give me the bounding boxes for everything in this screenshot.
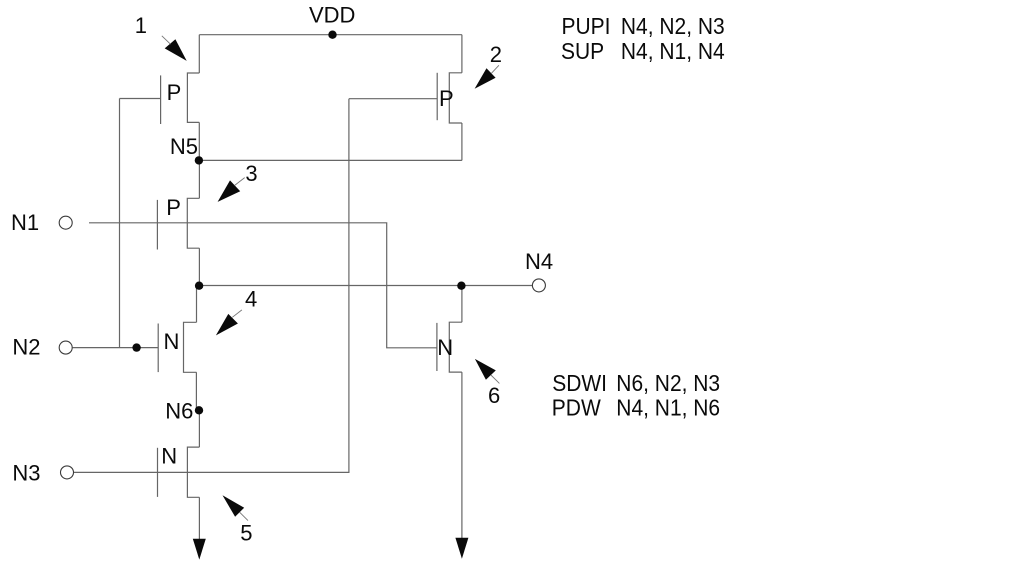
wire Q1 source lead (198, 122, 200, 160)
transistor Q6 gate bar (436, 323, 438, 371)
svg-text:N4: N4 (525, 249, 553, 274)
svg-text:SDWI: SDWI (552, 370, 607, 396)
arrow 3 head (218, 180, 241, 202)
svg-text:N: N (437, 335, 453, 360)
wire Q3 drain lead (198, 160, 200, 198)
wire Q4 drain lead (196, 286, 198, 323)
wire N5 node horizontal (199, 159, 462, 161)
arrow 4 tail (232, 310, 242, 317)
transistor Q6 channel (449, 322, 462, 372)
terminal circle N2 (59, 341, 72, 354)
text SUP line (561, 38, 725, 64)
terminal circle N3 (61, 466, 74, 479)
svg-text:P: P (166, 195, 181, 220)
svg-text:PDW: PDW (552, 395, 601, 421)
svg-text:VDD: VDD (309, 2, 355, 27)
junction dot N2 (132, 343, 140, 351)
svg-text:N4, N2, N3: N4, N2, N3 (621, 13, 725, 39)
svg-text:P: P (167, 80, 182, 105)
ground arrow left (193, 539, 206, 560)
wire Q2 gate lead (349, 98, 437, 100)
arrow 6 head (475, 359, 496, 380)
arrow 3 tail (235, 178, 245, 186)
wire Q2 source lead (461, 123, 463, 160)
transistor Q5 gate bar (157, 448, 159, 497)
text SDWI line (552, 370, 720, 396)
wire N4 output horizontal (199, 285, 532, 287)
transistor Q1 channel (187, 73, 199, 122)
svg-text:P: P (439, 86, 454, 111)
wire N1 input (89, 223, 437, 348)
junction dot N5 (195, 156, 203, 164)
wire Q2 gate to N3 net (74, 99, 349, 473)
transistor Q4 channel (184, 322, 197, 372)
svg-text:PUPI: PUPI (562, 13, 611, 39)
svg-text:2: 2 (490, 42, 502, 67)
junction dot N4 right (457, 282, 465, 290)
svg-text:N6, N2, N3: N6, N2, N3 (616, 370, 720, 396)
arrow 1 tail (162, 36, 171, 44)
svg-text:6: 6 (488, 383, 500, 408)
svg-text:N4, N1, N4: N4, N1, N4 (621, 38, 725, 64)
junction dot N6 (195, 406, 203, 414)
svg-text:N3: N3 (12, 461, 40, 486)
svg-text:5: 5 (240, 520, 252, 545)
text PDW line (552, 395, 720, 421)
junction dot N4 left (195, 282, 203, 290)
arrow 5 head (223, 495, 245, 517)
wire Q4 source lead (195, 372, 197, 410)
wire Q1 gate lead (120, 98, 161, 100)
junction dot VDD (328, 31, 336, 39)
wire Q1 gate to N2 net (119, 99, 121, 348)
transistor Q5 channel (187, 447, 199, 497)
wire Q1 drain lead (198, 35, 200, 73)
arrow 5 tail (240, 512, 248, 520)
transistor Q3 gate bar (156, 200, 158, 250)
ground arrow right (455, 538, 468, 559)
svg-text:N: N (161, 443, 177, 468)
wire Q2 drain lead (461, 35, 463, 73)
arrow 2 head (475, 68, 496, 89)
transistor Q2 channel (449, 73, 462, 123)
wire VDD rail (199, 34, 462, 36)
wire Q5 source lead to ground (198, 497, 200, 539)
arrow 1 head (165, 39, 187, 61)
terminal circle N1 (59, 216, 72, 229)
arrow 4 head (216, 314, 238, 336)
svg-text:N: N (164, 329, 180, 354)
svg-text:N5: N5 (170, 134, 198, 159)
svg-text:N2: N2 (12, 334, 40, 359)
svg-text:1: 1 (135, 13, 147, 38)
svg-text:4: 4 (245, 287, 257, 312)
svg-text:N4, N1, N6: N4, N1, N6 (616, 395, 720, 421)
transistor Q3 channel (187, 198, 199, 248)
svg-text:SUP: SUP (561, 38, 604, 64)
wire N2 input (73, 347, 159, 349)
svg-text:3: 3 (245, 161, 257, 186)
transistor Q4 gate bar (157, 324, 159, 373)
svg-text:N6: N6 (165, 398, 193, 423)
transistor Q2 gate bar (436, 73, 438, 120)
text PUPI line (562, 13, 725, 39)
wire Q3 source lead (198, 248, 200, 285)
arrow 2 tail (492, 65, 499, 73)
wire Q6 source lead to ground (461, 372, 463, 538)
terminal circle N4 (532, 279, 545, 292)
wire Q5 drain lead (198, 410, 200, 447)
wire Q6 drain lead (461, 286, 463, 323)
arrow 6 tail (491, 375, 500, 383)
transistor Q1 gate bar (160, 75, 162, 124)
svg-text:N1: N1 (11, 210, 39, 235)
